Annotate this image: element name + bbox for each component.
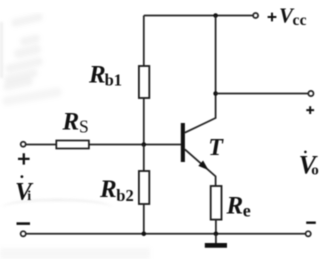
transistor T collector lead: [185, 95, 216, 133]
svg-text:S: S: [79, 116, 89, 136]
wire Rb2 bottom: [143, 204, 145, 234]
wire base line: [26, 144, 181, 146]
svg-text:e: e: [243, 201, 251, 221]
label input minus sign: [17, 222, 31, 225]
terminal output minus: [306, 231, 311, 236]
resistor Rb2: [139, 171, 149, 204]
svg-text:b2: b2: [116, 186, 133, 205]
label Rb1: [88, 62, 122, 90]
node collector output junction: [213, 91, 218, 96]
svg-text:R: R: [62, 109, 80, 136]
terminal +Vcc: [253, 13, 258, 18]
wire output: [216, 93, 309, 95]
label output minus sign: [306, 221, 316, 223]
node Rb2 bottom junction: [142, 232, 147, 237]
svg-text:T: T: [208, 135, 224, 161]
wire top rail: [144, 15, 253, 17]
wire collector to top rail: [215, 16, 217, 96]
terminal output plus: [308, 91, 313, 96]
label input plus sign: [18, 153, 30, 164]
label Vo: [299, 150, 319, 179]
transistor T emitter lead: [185, 149, 216, 186]
label Rs: [62, 109, 89, 137]
ground: [205, 234, 227, 246]
node emitter ground junction: [214, 232, 219, 237]
terminal input minus: [21, 231, 26, 236]
label output plus sign: [306, 106, 314, 114]
svg-text:R: R: [99, 176, 117, 203]
wire Rb2 top: [143, 145, 145, 172]
transistor T base bar: [181, 123, 185, 162]
resistor Re: [211, 186, 222, 220]
wire bottom rail: [26, 233, 306, 235]
node base junction: [142, 142, 147, 147]
label Vi: [15, 175, 34, 205]
label Re: [226, 193, 251, 221]
svg-text:R: R: [226, 193, 244, 220]
svg-text:o: o: [311, 163, 319, 179]
label Rb2: [99, 176, 134, 205]
wire Re bottom: [215, 220, 217, 234]
resistor Rb1: [139, 66, 149, 98]
transistor T emitter arrow: [198, 161, 208, 171]
terminal input plus: [21, 142, 26, 147]
wire Rb1 top: [143, 16, 145, 67]
svg-text:cc: cc: [293, 12, 307, 29]
wire Rb1 bottom: [143, 98, 145, 145]
resistor Rs: [56, 141, 89, 149]
svg-text:R: R: [88, 62, 106, 89]
svg-text:b1: b1: [105, 71, 122, 90]
node top junction: [213, 13, 218, 18]
label +Vcc: [268, 4, 307, 30]
svg-text:i: i: [27, 189, 31, 204]
